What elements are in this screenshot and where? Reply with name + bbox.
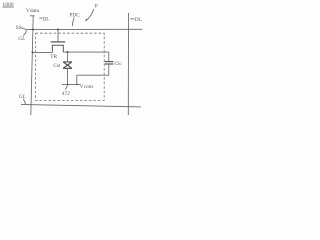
wire: TR drain to Clc branch (pixel node) — [63, 51, 109, 53]
gate line GL (bottom horizontal) — [21, 104, 141, 107]
wire: node to Cst top — [67, 52, 69, 62]
junction dot: gate lead on GL — [57, 29, 59, 31]
transistor TR gate bar — [51, 41, 66, 43]
data line DL (right vertical) — [127, 13, 129, 115]
arrowhead of P leader — [85, 19, 87, 22]
wire: node to Clc top — [108, 52, 110, 61]
svg-text:GL: GL — [18, 36, 25, 42]
wire: DL to TR source — [32, 51, 52, 53]
svg-text:PDC: PDC — [69, 13, 80, 19]
svg-text:TR: TR — [50, 54, 57, 60]
svg-text:1000: 1000 — [2, 2, 13, 8]
junction dot: Clc return at Vcom bar — [76, 84, 78, 86]
wire: down to Vcom bar — [76, 75, 78, 84]
svg-text:Vcom: Vcom — [80, 84, 94, 90]
svg-text:GL: GL — [19, 94, 26, 100]
leader arrow from P label — [86, 9, 94, 21]
svg-text:Vdata: Vdata — [26, 8, 40, 14]
capacitor Cst (liquid-crystal bowtie) — [63, 62, 72, 69]
Vcom common electrode bar — [62, 83, 80, 85]
leader from PDC label — [72, 18, 74, 27]
leader to DL label (left) — [39, 17, 42, 19]
figure number 1000 underline — [2, 6, 13, 8]
junction dot: pixel node — [67, 51, 69, 53]
svg-text:Cst: Cst — [53, 63, 60, 69]
PDC dashed box — [36, 33, 105, 100]
leader to DL label (right) — [130, 18, 134, 20]
transistor TR gate lead — [57, 30, 59, 42]
capacitor Clc plates — [105, 62, 114, 64]
wire: Clc bottom lead — [108, 64, 110, 75]
leader from GL label (bottom) — [23, 99, 25, 104]
transistor TR channel — [52, 45, 63, 52]
wire: Cst bottom to Vcom bar — [67, 68, 69, 84]
leader from GL label (top) — [23, 30, 26, 35]
junction dot: DL x top GL — [32, 29, 34, 31]
wire: Clc bottom horizontal — [77, 74, 109, 76]
svg-text:Clc: Clc — [115, 61, 123, 67]
gate line GL (top horizontal) — [26, 28, 143, 30]
svg-text:472: 472 — [62, 91, 70, 97]
junction dot: DL x source wire — [32, 51, 34, 53]
leader to 472 label — [65, 85, 68, 89]
data line DL (left vertical) — [31, 16, 33, 115]
svg-text:SS: SS — [16, 25, 22, 31]
svg-text:DL: DL — [135, 17, 142, 23]
leader from SS label — [21, 28, 26, 30]
svg-text:DL: DL — [42, 16, 49, 22]
svg-text:P: P — [95, 4, 98, 10]
Vdata terminal tick — [30, 15, 35, 17]
junction dot: Cst at Vcom bar — [67, 84, 69, 86]
